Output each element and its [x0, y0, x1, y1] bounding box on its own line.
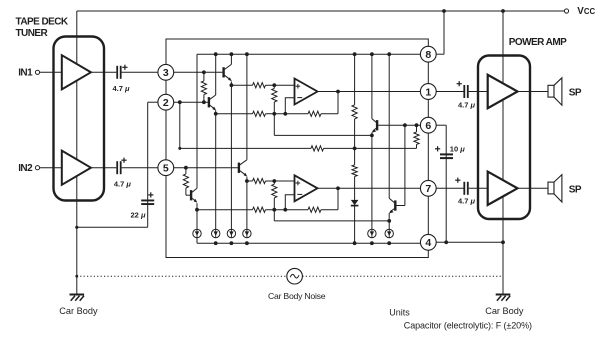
pin 5: [158, 160, 174, 176]
node pin5-R9: [184, 166, 188, 170]
wire ch1 feedback up: [337, 92, 339, 114]
transistor Q3: [239, 54, 248, 177]
pin 8: [420, 46, 436, 62]
resistor R4 ch1 divider: [272, 85, 277, 114]
svg-text:4.7 μ: 4.7 μ: [114, 179, 132, 188]
svg-text:IN2: IN2: [18, 163, 33, 174]
node ch2 minus junction: [283, 208, 287, 212]
label Car Body Noise: [268, 291, 326, 301]
capacitor C5 22u: [131, 192, 155, 219]
node D1-ground rail: [353, 241, 357, 245]
node ch1 divider bottom: [272, 112, 276, 116]
node pin6 wire junctions: [403, 123, 418, 127]
wire IN1 to amp: [40, 71, 62, 73]
node pin4-10u: [444, 240, 448, 244]
op-amp U2 channel 2: [295, 175, 318, 201]
wire pin 4 out: [436, 241, 503, 243]
current source I3: [227, 229, 235, 237]
wire pin 3 to Q1 base: [172, 71, 222, 73]
current source I2: [212, 229, 220, 237]
wire noise dotted right: [302, 275, 503, 277]
wire ch2 minus L: [285, 195, 294, 210]
wire IN2 to amp: [40, 167, 62, 169]
capacitor C4 4.7u: [455, 178, 475, 206]
svg-text:4: 4: [425, 237, 431, 249]
wire pin 2 to Q2 base: [172, 101, 208, 103]
wire internal Vcc rail: [197, 53, 422, 55]
pin 2: [158, 94, 174, 110]
label Car Body right: [485, 306, 524, 316]
node ch2 output junction: [336, 186, 340, 190]
wire bias drop: [179, 102, 181, 148]
speaker SP2: [548, 175, 582, 202]
svg-text:Car Body: Car Body: [485, 306, 524, 316]
svg-text:8: 8: [425, 49, 431, 61]
transistor Q4: [191, 187, 197, 203]
transistor Q6: [389, 54, 396, 213]
wire pin6 to Q6 base: [396, 125, 405, 205]
node Q1 emitter tap: [230, 83, 234, 87]
capacitor C3 4.7u: [457, 81, 476, 109]
wire Q5 base to pin 6: [377, 124, 422, 126]
wire C2 to pin 5: [122, 167, 160, 169]
node Vcc junction to pin 8: [442, 9, 446, 13]
current source I6: [385, 229, 393, 237]
wire A4 to speaker: [518, 187, 549, 189]
wire ch1 minus wire: [216, 111, 286, 116]
node ch2 plus divider: [272, 179, 276, 183]
resistor R10 bias rail: [311, 146, 324, 151]
resistor R11 ch2 divider: [272, 181, 277, 210]
resistor R13 ch2 feedback: [285, 207, 338, 212]
svg-text:7: 7: [425, 183, 431, 195]
node pin4-power ground: [501, 240, 505, 244]
label TUNER: [16, 28, 49, 39]
ground right car body: [496, 294, 511, 301]
pin 3: [158, 64, 174, 80]
IC outline: [166, 39, 428, 258]
wire Q2 emitter down: [215, 111, 217, 230]
node Vcc junction to power amp: [501, 9, 505, 13]
svg-text:VCC: VCC: [577, 6, 595, 17]
node rail junctions: [214, 52, 391, 56]
wire power amp supply vertical: [502, 11, 504, 294]
pin 7: [420, 180, 436, 196]
amp A1 tuner channel 1: [62, 55, 91, 89]
wire 22u to tuner ground: [77, 226, 148, 228]
capacitor C6 10u: [435, 144, 465, 159]
node Q6 emitter tap: [387, 219, 391, 223]
amp A3 power channel 1: [488, 75, 518, 108]
svg-text:10 μ: 10 μ: [450, 144, 465, 153]
pin 6: [420, 117, 436, 133]
wire amp A1 out: [91, 71, 116, 73]
amp A2 tuner channel 2: [62, 151, 91, 185]
wire ch2 output to pin 7: [318, 187, 423, 189]
capacitor C2 4.7u: [114, 158, 132, 189]
wire Q6 emitter to ch2 divider: [274, 210, 389, 221]
wire C3 to power amp: [469, 91, 488, 93]
transistor Q5: [371, 54, 377, 133]
wire rail left drop / Q4 collector rail: [196, 54, 198, 187]
node ground rail junctions: [214, 241, 391, 245]
svg-text:22 μ: 22 μ: [131, 211, 146, 220]
label Capacitor note: [404, 321, 532, 331]
node R1-pin2: [202, 100, 206, 104]
node Q4 emitter tap: [195, 208, 199, 212]
wire R9 to Q4 base: [186, 194, 190, 196]
op-amp U1 channel 1: [295, 79, 318, 105]
label Car Body left: [59, 306, 98, 316]
speaker SP1: [548, 78, 582, 105]
node Q3 emitter tap: [245, 179, 249, 183]
svg-text:4.7 μ: 4.7 μ: [458, 100, 476, 109]
wire pin 1 out: [436, 91, 464, 93]
svg-text:3: 3: [163, 67, 169, 79]
wire amp A2 out: [91, 167, 116, 169]
label POWER AMP: [509, 37, 567, 48]
pin 1: [420, 84, 436, 100]
node Q5 emitter tap: [370, 134, 374, 138]
node noise-left ground: [75, 275, 78, 278]
wire Q6 emitter down: [388, 213, 390, 229]
label TAPE DECK: [16, 16, 69, 27]
node ch2 divider bottom: [272, 208, 276, 212]
svg-text:Car Body Noise: Car Body Noise: [268, 291, 326, 301]
wire bias rail left: [180, 147, 311, 149]
resistor R8: [414, 125, 419, 148]
wire pin 8 to Vcc: [436, 11, 444, 54]
wire bias rail right: [324, 147, 417, 149]
svg-text:Car Body: Car Body: [59, 306, 98, 316]
wire pin 6 elbow: [436, 125, 446, 242]
wire ch1 plus input: [231, 83, 294, 88]
node Q2 emitter tap: [214, 112, 218, 116]
wire C1 to pin 3: [122, 71, 160, 73]
wire ch2 plus input: [247, 178, 295, 183]
node 22u-ground junction: [75, 226, 78, 229]
resistor R9: [183, 168, 188, 196]
wire Q3 emitter down: [246, 177, 248, 230]
svg-text:SP: SP: [569, 184, 582, 195]
current source I4: [243, 229, 251, 237]
terminal Vcc: [564, 6, 595, 17]
ground left car body: [70, 294, 85, 301]
wire ch1 minus L: [285, 98, 294, 114]
svg-text:6: 6: [425, 120, 431, 132]
terminal IN1: [18, 68, 39, 79]
svg-text:4.7 μ: 4.7 μ: [458, 196, 476, 205]
node bias-R6: [353, 147, 357, 151]
svg-text:POWER AMP: POWER AMP: [509, 37, 567, 48]
node ch1 minus junction: [283, 112, 287, 116]
wire Q4 emitter down: [196, 203, 198, 229]
wire ch2 feedback up: [337, 188, 339, 209]
wire Q5 emitter down: [371, 133, 373, 230]
current source I1: [193, 229, 201, 237]
svg-text:Units: Units: [389, 307, 410, 317]
svg-text:SP: SP: [569, 87, 582, 98]
svg-text:5: 5: [163, 163, 169, 175]
wire tuner supply vertical: [76, 11, 78, 294]
wire ch2 minus wire: [197, 207, 285, 212]
wire C4 to power amp: [469, 187, 488, 189]
node ch1 output junction: [336, 90, 340, 94]
capacitor C1 4.7u: [113, 65, 131, 93]
svg-text:4.7 μ: 4.7 μ: [113, 84, 131, 93]
diode D1: [351, 188, 359, 243]
noise source V1: [287, 268, 303, 284]
node pin2 bias tap: [178, 100, 182, 104]
wire pin 5 to Q3 base: [172, 167, 238, 169]
wire pin 7 out: [436, 187, 464, 189]
node bias rail corner: [178, 147, 181, 150]
wire pin 2 left: [148, 101, 160, 103]
label Units: [389, 307, 410, 317]
node ch1 plus divider: [272, 83, 276, 87]
resistor R5 ch1 feedback: [285, 111, 338, 116]
svg-text:Capacitor (electrolytic): F (±: Capacitor (electrolytic): F (±20%): [404, 321, 532, 331]
svg-text:TUNER: TUNER: [16, 28, 49, 39]
svg-text:1: 1: [425, 86, 431, 98]
wire 22u vertical: [147, 102, 149, 227]
svg-text:TAPE DECK: TAPE DECK: [16, 16, 69, 27]
resistor R7 bias to pin7: [352, 148, 357, 188]
wire Vcc rail: [77, 10, 567, 12]
svg-text:IN1: IN1: [18, 68, 33, 79]
transistor Q2: [209, 54, 216, 110]
wire ch1 tail to Q5: [274, 114, 372, 136]
tuner box: [54, 37, 105, 201]
resistor R6 rail to bias: [352, 54, 357, 148]
current source I5: [368, 229, 376, 237]
svg-text:2: 2: [163, 97, 169, 109]
transistor Q1: [224, 54, 232, 81]
wire Q1 emitter down: [230, 82, 232, 230]
amp A4 power channel 2: [488, 172, 518, 205]
wire A3 to speaker: [518, 91, 549, 93]
wire internal ground rail: [197, 238, 422, 244]
power amp box: [478, 56, 530, 220]
terminal IN2: [18, 163, 39, 174]
pin 4: [420, 234, 436, 250]
wire ch1 output to pin 1: [318, 91, 423, 93]
node pin3-R1: [202, 70, 206, 74]
resistor R1: [201, 72, 206, 102]
wire noise dotted left: [77, 275, 287, 277]
